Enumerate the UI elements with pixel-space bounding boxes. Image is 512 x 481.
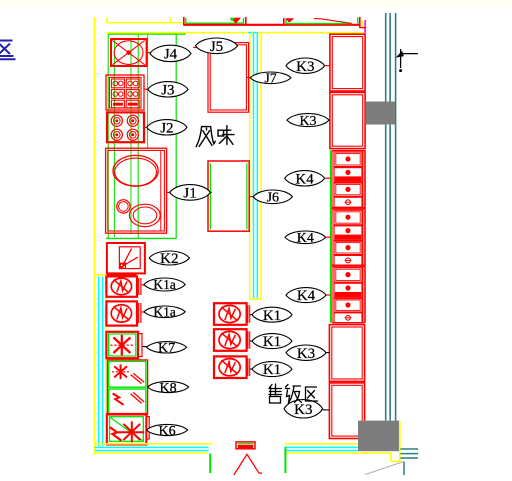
partition cyan line 1 [253, 33, 255, 298]
teal stub lines [400, 448, 418, 450]
machine K7 box [106, 332, 138, 358]
machine K8 box 1 [109, 361, 146, 387]
cart K2 spokes [123, 249, 131, 265]
svg-text:K1: K1 [263, 334, 281, 350]
stove J2 burners [111, 115, 122, 126]
drawer column left red edge [331, 150, 333, 322]
cooker J1 tick right [210, 191, 213, 193]
top wall green jamb 4 [357, 18, 359, 24]
svg-text:K3: K3 [297, 346, 315, 362]
partition yellow line left [249, 33, 251, 300]
green pipe v4 [137, 34, 139, 238]
label bubble J3 [148, 82, 188, 97]
magenta wall cap [364, 20, 366, 33]
gray column lower [358, 421, 400, 452]
hood J4 cross [112, 40, 144, 64]
label bubble K1-2 [252, 334, 292, 349]
label bubble K8 [148, 381, 189, 392]
cabinet low 2 inner [332, 385, 362, 436]
teal pipe line 1 [385, 13, 387, 421]
drawer column right red edges [362, 150, 364, 322]
drawer column green edge [330, 150, 332, 322]
svg-text:K1: K1 [263, 308, 281, 324]
cabinet K3 tick 4 [323, 409, 330, 411]
cabinet low 1 outer [329, 325, 364, 382]
top wall green line B [286, 23, 352, 25]
svg-text:J7: J7 [264, 72, 276, 87]
cart K2 inner box [119, 247, 140, 269]
K1a column top red line [107, 274, 137, 276]
table J5 tick [193, 46, 196, 48]
svg-text:J3: J3 [161, 82, 174, 98]
drawer K4 tick 3 [326, 294, 331, 296]
drawer K4 tick 1 [325, 177, 331, 179]
inner top cyan dashes [248, 32, 252, 34]
label bubble J1 [170, 185, 211, 201]
cabinet top 1 outer [330, 34, 365, 91]
text fengwei [196, 126, 234, 147]
label bubble K3-2 [287, 114, 329, 127]
mixer K1a symbol 2 [111, 305, 131, 322]
machine K7 tick [142, 345, 147, 347]
window marker triangle 1 [231, 18, 242, 24]
top wall yellow jamb [361, 20, 363, 28]
svg-text:K4: K4 [295, 171, 314, 187]
partition yellow line right [260, 33, 262, 300]
partition cyan line 2 [256, 33, 258, 298]
table J6 green right [246, 163, 248, 229]
warmer K1 boxes [214, 303, 247, 325]
stove J2 box [107, 112, 144, 142]
machine K6 green diagonal [111, 418, 143, 441]
cabinet top 2 outer [330, 92, 365, 148]
label bubble K7 [147, 342, 187, 353]
range J3 burners [111, 79, 124, 88]
cooker J1 tick left [167, 191, 170, 193]
table J6 green left [209, 163, 211, 229]
stove J2 tick [144, 126, 147, 128]
label bubble K2 [149, 251, 189, 265]
machine K6 star [131, 421, 133, 442]
top wall red jamb 2 [245, 17, 247, 25]
label bubble K1a-1 [144, 278, 185, 291]
bottom wall yellow left 2 [95, 452, 208, 454]
drawer stacks [332, 150, 365, 152]
cart K2 box [107, 243, 145, 273]
cooker J1 inner box [108, 150, 165, 231]
label bubble K3-1 [286, 58, 325, 73]
svg-text:K2: K2 [160, 251, 178, 267]
label bubble J7 [250, 72, 291, 84]
cooker J1 outer box [106, 148, 167, 233]
label bubble J5 [196, 38, 238, 54]
label bubble J4 [150, 45, 191, 61]
label bubble K1a-2 [144, 306, 185, 318]
table J5 inner [210, 45, 246, 110]
top wall green line A [186, 22, 244, 24]
left wall cyan line 1 [98, 277, 100, 446]
machines K8 red frame [107, 360, 147, 415]
svg-text:J2: J2 [160, 120, 173, 136]
top wall red beam [184, 24, 361, 26]
cooker J1 mid wok [129, 204, 160, 226]
svg-text:K4: K4 [297, 231, 314, 246]
top wall yellow stub [106, 17, 108, 24]
green pipe v2 [113, 40, 115, 237]
bottom wall cyan right 1 [285, 446, 358, 448]
machine K6 bolt [110, 427, 122, 441]
hood J4 box [111, 39, 147, 66]
cabinet K3 tick 3 [326, 352, 330, 354]
hyperlink qu [0, 41, 16, 60]
faint top strip [0, 0, 512, 8]
green pipe v3 [130, 40, 132, 233]
cooker J1 small pot [117, 200, 130, 213]
inner top yellow line [106, 32, 364, 34]
door swing diagonal [314, 19, 352, 24]
label bubble K4-2 [285, 231, 326, 244]
bottom wall cyan left 1 [95, 446, 209, 448]
top wall green jamb 3 [285, 19, 287, 24]
green pipe rect top [107, 34, 109, 238]
machine K7 star [121, 335, 123, 356]
cart K2 corner block [120, 263, 126, 269]
hood J4 fan circle [114, 41, 143, 65]
mixer K1a symbol 1 [111, 278, 131, 295]
label bubble K3-4 [284, 400, 323, 418]
mixer K1a box 2 [106, 301, 137, 325]
machine K6 box [107, 414, 146, 445]
top wall red jamb 4 [359, 17, 361, 28]
door swing tent [234, 454, 262, 475]
table J6 box [208, 161, 249, 231]
svg-text:K3: K3 [294, 402, 312, 418]
gray diagonal [365, 461, 404, 474]
left wall yellow jog [95, 274, 107, 276]
svg-text:J4: J4 [164, 47, 178, 63]
top wall red jamb 3 [283, 18, 285, 25]
teal stub vertical [403, 462, 405, 475]
warmer K1 ticks [250, 314, 253, 316]
gray column upper [366, 102, 396, 125]
range J3 inner box [109, 77, 141, 108]
svg-text:K1a: K1a [153, 277, 176, 292]
window marker triangle 2 [285, 18, 294, 23]
machine K8 box 2 [109, 389, 146, 414]
mixer K1a box 1 [106, 276, 137, 296]
green pipe bottom horizontal [106, 237, 176, 239]
cabinet low 1 inner [332, 327, 362, 379]
left wall cyan line 2 [102, 277, 104, 446]
cabinet top 1 inner [332, 37, 362, 89]
svg-text:K3: K3 [299, 114, 316, 129]
label bubble J6 [253, 190, 292, 204]
teal pipe line 3 [395, 13, 397, 421]
table J7 tick [247, 76, 251, 78]
table J6 tick [250, 196, 254, 198]
label bubble J2 [147, 120, 187, 135]
label bubble K6 [147, 424, 188, 435]
top wall red jamb left [183, 17, 185, 25]
top wall green jamb 2 [243, 18, 245, 23]
drawer K4 tick 2 [326, 236, 331, 238]
svg-text:J5: J5 [210, 39, 223, 55]
bottom wall cyan left 2 [95, 450, 209, 452]
machine K8 bolt 2 [113, 393, 124, 404]
cooker J1 big wok [113, 155, 158, 186]
svg-text:K4: K4 [297, 288, 316, 304]
cabinet K3 tick 2 [329, 119, 331, 121]
door jamb green right [284, 447, 286, 473]
door jamb green left [209, 453, 211, 473]
machine K7 green inner [109, 334, 136, 356]
svg-text:J6: J6 [267, 191, 279, 206]
bottom wall cyan right 2 [285, 450, 358, 452]
bottom wall yellow right 2 [285, 452, 391, 454]
cabinet top 2 inner [332, 95, 362, 146]
inner top green line [108, 33, 186, 35]
door leaf [236, 442, 255, 449]
mixer K1a tab 1 [138, 278, 140, 295]
machine K6 green inner [110, 417, 144, 442]
teal pipe line 2 [389, 13, 391, 421]
label bubble K1-3 [252, 362, 292, 377]
svg-text:K1a: K1a [153, 304, 176, 319]
machine K8 hatch 2 [131, 394, 142, 404]
cabinet low 2 outer [329, 383, 364, 439]
yellow corner right [399, 421, 401, 462]
text shoufanqu [269, 384, 318, 403]
machine K8 star 1 [120, 364, 122, 379]
left wall yellow inner vertical [105, 275, 107, 444]
leader arrow [401, 53, 418, 55]
green pipe long vertical [175, 34, 177, 238]
top wall yellow horizontal [107, 22, 184, 24]
partition yellow bottom [249, 298, 262, 300]
table J5 outer [208, 43, 249, 113]
label bubble K4-3 [286, 288, 326, 303]
bottom wall yellow left [95, 443, 211, 445]
mixer K1a tab 2 [138, 303, 140, 323]
label bubble K4-1 [285, 171, 325, 186]
machine K6 tab [146, 417, 149, 439]
svg-text:K8: K8 [160, 381, 177, 396]
range J3 tick [144, 88, 148, 90]
svg-text:K7: K7 [158, 341, 175, 356]
mixer K1a tick 1 [141, 284, 145, 286]
machine K8 hatch 1 [131, 375, 142, 384]
left wall yellow vertical [94, 17, 96, 455]
cooker J1 inner line [160, 150, 162, 231]
green pipe v5 [147, 34, 149, 148]
label bubble K3-3 [286, 345, 326, 360]
cabinet K3 tick 1 [325, 65, 330, 67]
svg-text:J1: J1 [183, 186, 196, 202]
hood J4 tick [147, 51, 151, 53]
machine K7 tab [138, 334, 142, 357]
mixer K1a tick 2 [141, 311, 145, 313]
svg-text:K3: K3 [296, 59, 314, 75]
top wall red cap line [360, 27, 366, 29]
top wall green jamb left [185, 18, 187, 23]
label bubble K1-1 [252, 307, 292, 322]
svg-text:K6: K6 [159, 424, 176, 439]
range J3 outer box [106, 75, 144, 110]
top wall yellow tick [169, 17, 171, 23]
bottom wall yellow right [285, 443, 358, 445]
svg-text:K1: K1 [263, 362, 281, 378]
